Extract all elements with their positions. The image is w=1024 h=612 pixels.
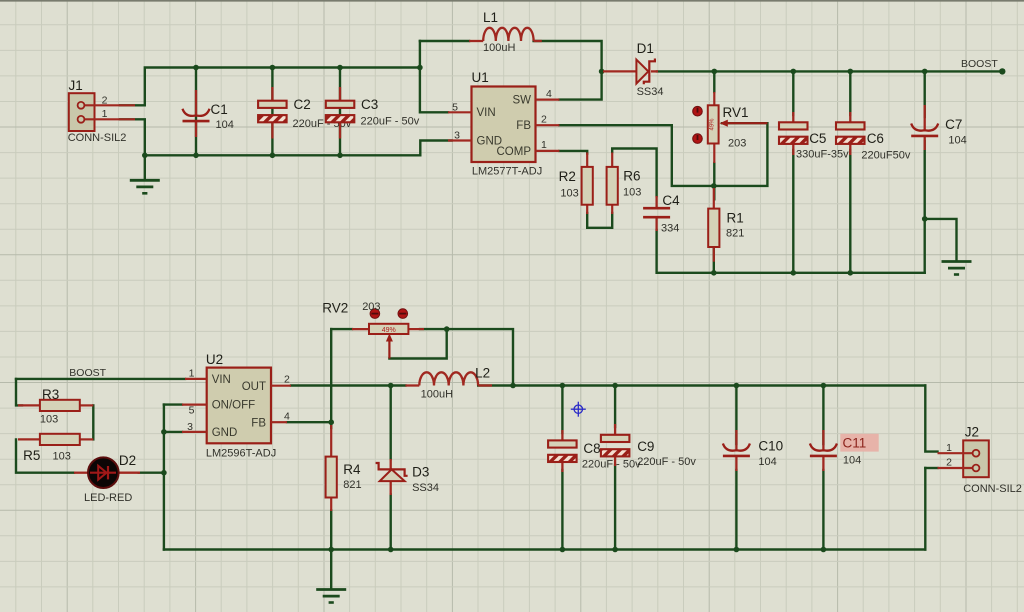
svg-text:LM2596T-ADJ: LM2596T-ADJ [206, 448, 276, 460]
wire R2-R6 link [587, 213, 612, 228]
connector J1 [69, 93, 135, 131]
wire C6 bottom lead [849, 150, 851, 273]
connector J2 [938, 440, 989, 477]
junction L1/D1/SW [599, 69, 605, 75]
svg-text:100uH: 100uH [483, 42, 515, 54]
junction C6 top [848, 69, 854, 75]
capacitor C1 leads [195, 90, 197, 137]
svg-text:334: 334 [661, 223, 679, 235]
capacitor C3 [326, 101, 355, 123]
svg-text:J1: J1 [69, 78, 83, 93]
wire GND pin jog [420, 141, 451, 156]
svg-text:103: 103 [53, 451, 71, 463]
wire C7 bottom lead [924, 141, 926, 273]
potentiometer RV2 [352, 324, 424, 359]
svg-text:C8: C8 [583, 441, 600, 456]
wire L1 left / VIN [420, 41, 448, 112]
capacitor C8 [548, 440, 577, 462]
junction RV2 right/output [510, 383, 516, 389]
svg-text:LED-RED: LED-RED [84, 492, 132, 504]
junction D2/vertical [161, 470, 167, 476]
svg-text:J2: J2 [965, 425, 979, 440]
svg-text:C11: C11 [843, 436, 867, 451]
junction C7 ground branch [922, 216, 928, 222]
svg-text:C10: C10 [758, 439, 783, 454]
svg-text:C7: C7 [945, 117, 962, 132]
capacitor C11 [810, 444, 837, 456]
junction C10 top [734, 383, 740, 389]
svg-text:R2: R2 [559, 169, 576, 184]
wire RV2 right to output [420, 329, 513, 385]
wire C9 top lead [614, 386, 616, 428]
wire to J2 pin1 [925, 386, 937, 452]
svg-text:R3: R3 [42, 387, 59, 402]
inductor L1 [469, 28, 542, 41]
wire J1 pin1 down [120, 119, 145, 155]
svg-text:220uF - 50v: 220uF - 50v [637, 456, 696, 468]
capacitor C7 [911, 124, 938, 136]
wire bottom rail right section [657, 230, 925, 273]
junction R1 bottom rail [711, 270, 717, 276]
junction FB/R4/RV2 [328, 419, 334, 425]
wire BOOST to U2 VIN [16, 378, 185, 380]
resistor R2 leads [586, 153, 588, 215]
wire R5 to D2 [16, 439, 74, 472]
wire to ground top-right [925, 219, 957, 261]
junction GND/vertical [161, 429, 167, 435]
svg-text:LM2577T-ADJ: LM2577T-ADJ [472, 166, 542, 178]
wire C1 riser [195, 68, 197, 156]
junction D3 bottom [388, 547, 394, 553]
junction C9 top [612, 383, 618, 389]
svg-text:203: 203 [362, 301, 380, 313]
wire COMP to R2 [559, 151, 587, 154]
marker RV2 pin dot left [370, 309, 380, 319]
inductor L2 [405, 372, 492, 385]
resistor R4 leads [330, 425, 332, 511]
capacitor C8 leads [561, 430, 563, 472]
svg-text:1: 1 [102, 108, 108, 120]
capacitor C11 leads [822, 430, 824, 471]
wire R1 bottom [713, 247, 715, 273]
svg-text:49%: 49% [710, 118, 716, 131]
svg-text:103: 103 [623, 187, 641, 199]
svg-text:D3: D3 [412, 465, 429, 480]
wire C5 bottom lead [792, 150, 794, 273]
wire J1 pin2 to top input bus [120, 68, 420, 106]
wire C10 top lead [735, 386, 737, 445]
svg-text:OUT: OUT [242, 381, 266, 393]
svg-text:R6: R6 [623, 169, 640, 184]
junction C8 top [560, 383, 566, 389]
resistor R3 leads [18, 404, 93, 406]
wire to R3 left [16, 379, 22, 406]
wire L1 right to SW [534, 41, 602, 100]
resistor R3 [40, 400, 80, 411]
svg-text:220uF - 50v: 220uF - 50v [361, 116, 420, 128]
svg-text:220uF50v: 220uF50v [861, 150, 910, 162]
svg-text:4: 4 [284, 411, 290, 423]
wire RV1 to R1 [713, 163, 715, 199]
wire C2 riser [271, 68, 273, 156]
svg-text:5: 5 [189, 405, 195, 417]
svg-text:3: 3 [187, 421, 193, 433]
svg-text:C4: C4 [662, 193, 680, 208]
wire D3 top [390, 386, 392, 460]
wire C8 bottom lead [561, 470, 563, 550]
junction C2 top [270, 65, 276, 71]
svg-text:SS34: SS34 [637, 86, 664, 98]
svg-text:R1: R1 [727, 211, 744, 226]
svg-text:2: 2 [102, 95, 108, 107]
wire left vertical bottom circuit [163, 405, 165, 550]
svg-text:GND: GND [212, 427, 238, 439]
junction input bus / L1 [417, 65, 423, 71]
wire ground stem bottom [330, 550, 332, 588]
svg-text:5: 5 [452, 102, 458, 114]
wire bottom ground bus [145, 154, 421, 156]
svg-text:BOOST: BOOST [69, 367, 106, 379]
junction J1 ground [142, 153, 148, 159]
wire RV2 left down [330, 329, 332, 422]
svg-text:49%: 49% [382, 327, 396, 334]
svg-text:VIN: VIN [477, 107, 496, 119]
svg-text:C9: C9 [637, 439, 654, 454]
svg-text:C6: C6 [867, 131, 884, 146]
wire to L1 [420, 40, 469, 42]
svg-text:FB: FB [251, 417, 266, 429]
svg-text:2: 2 [946, 457, 952, 469]
junction C2 bottom [270, 153, 276, 159]
svg-text:1: 1 [541, 139, 547, 151]
wire OUT to L2 [291, 384, 405, 386]
resistor R6 [607, 167, 618, 205]
capacitor C2 [258, 101, 287, 123]
wire to R4 top [330, 422, 332, 428]
junction C3 bottom [337, 153, 343, 159]
svg-text:104: 104 [758, 456, 776, 468]
capacitor C6 [836, 122, 865, 144]
marker RV1 pin dot top [693, 106, 703, 116]
junction C11 bottom [821, 547, 827, 553]
svg-text:330uF-35v: 330uF-35v [796, 149, 849, 161]
wire C9 bottom lead [614, 465, 616, 550]
marker RV2 pin dot right [398, 309, 408, 319]
diode D1 SS34 [603, 59, 658, 85]
op-amp U2 LM2596T-ADJ box [182, 368, 291, 444]
capacitor C9 [601, 435, 630, 457]
wire C5 top lead [792, 71, 794, 115]
wire RV1 top lead [713, 71, 715, 92]
wire C6 top lead [849, 71, 851, 115]
capacitor C10 leads [735, 430, 737, 471]
capacitor C10 [723, 444, 750, 456]
junction C9 bottom [612, 547, 618, 553]
wire FB loop [559, 123, 767, 186]
wire ON/OFF stub [164, 403, 182, 405]
svg-text:CONN-SIL2: CONN-SIL2 [963, 483, 1022, 495]
capacitor C7 leads [924, 105, 926, 150]
wire D3 bottom [390, 495, 392, 550]
svg-text:104: 104 [216, 119, 234, 131]
svg-text:D1: D1 [637, 41, 654, 56]
svg-text:203: 203 [728, 138, 746, 150]
svg-text:2: 2 [284, 374, 290, 386]
junction C5 bottom [791, 270, 797, 276]
capacitor C4 [643, 196, 670, 231]
junction C5 top [791, 69, 797, 75]
junction C8 bottom [560, 547, 566, 553]
wire D2 to vertical [139, 472, 164, 474]
resistor R1 [708, 209, 719, 247]
wire C11 bottom lead [822, 470, 824, 550]
svg-text:L2: L2 [475, 366, 490, 381]
capacitor C3 leads [339, 87, 341, 139]
svg-text:SS34: SS34 [412, 482, 439, 494]
svg-text:U2: U2 [206, 352, 223, 367]
svg-text:U1: U1 [472, 70, 489, 85]
capacitor C5 [779, 122, 808, 144]
svg-text:821: 821 [343, 479, 361, 491]
svg-text:VIN: VIN [212, 374, 231, 386]
junction C1 bottom [193, 153, 199, 159]
junction RV1 BOOST [712, 69, 718, 75]
svg-text:3: 3 [454, 129, 460, 141]
potentiometer RV1 [708, 92, 768, 163]
svg-text:D2: D2 [119, 453, 136, 468]
ground bottom [316, 590, 346, 603]
svg-text:CONN-SIL2: CONN-SIL2 [68, 132, 127, 144]
wire C7 top lead [924, 71, 926, 117]
wire C10 bottom lead [735, 470, 737, 550]
marker RV1 pin dot bottom [693, 134, 703, 144]
svg-text:103: 103 [560, 188, 578, 200]
svg-text:100uH: 100uH [421, 389, 453, 401]
wire RV2 left lead link [331, 328, 352, 330]
svg-text:821: 821 [726, 227, 744, 239]
svg-text:104: 104 [843, 455, 861, 467]
svg-text:2: 2 [541, 114, 547, 126]
capacitor C1 [183, 109, 210, 121]
capacitor C5 leads [792, 112, 794, 155]
svg-text:C2: C2 [294, 97, 311, 112]
wire C8 top lead [561, 386, 563, 434]
wire J2 pin2 stub link [925, 467, 937, 469]
svg-text:R5: R5 [23, 448, 40, 463]
svg-text:R4: R4 [343, 462, 361, 477]
resistor R5 [40, 434, 80, 445]
junction FB/RV1/R1 [711, 183, 717, 189]
junction C3 top [337, 65, 343, 71]
junction C11 top [821, 383, 827, 389]
resistor R6 leads [611, 153, 613, 215]
wire RV2 wiper loop [389, 329, 446, 358]
svg-text:220uF - 50v: 220uF - 50v [582, 459, 641, 471]
junction C6 bottom [848, 270, 854, 276]
capacitor C9 leads [614, 424, 616, 466]
capacitor C2 leads [271, 87, 273, 139]
wire R3-R5 right link [92, 405, 94, 439]
junction OUT/D3/L2 [388, 383, 394, 389]
resistor R1 leads [713, 188, 715, 262]
svg-text:104: 104 [948, 135, 966, 147]
wire FB to junction [287, 421, 331, 423]
svg-text:C1: C1 [211, 102, 228, 117]
LED D2 [74, 457, 140, 488]
wire J2 pin2 down [924, 468, 926, 550]
junction ground stem [328, 547, 334, 553]
svg-text:ON/OFF: ON/OFF [212, 400, 255, 412]
node BOOST terminal [999, 68, 1005, 74]
junction C1 top [193, 65, 199, 71]
ground top-right [942, 262, 972, 275]
svg-text:103: 103 [40, 414, 58, 426]
junction C7 top [922, 69, 928, 75]
wire ground stem J1 [144, 155, 146, 178]
wire D1 cathode to BOOST [657, 70, 1002, 72]
svg-text:1: 1 [946, 442, 952, 454]
resistor R4 [326, 457, 337, 498]
wire C11 top lead [822, 386, 824, 445]
capacitor C6 leads [849, 112, 851, 155]
marker origin crosshair [571, 402, 586, 417]
wire R4 bottom [330, 511, 332, 550]
highlight box C11 [840, 434, 878, 452]
resistor R2 [582, 167, 593, 205]
svg-text:L1: L1 [483, 10, 498, 25]
wire R6 top to C4 [612, 149, 656, 197]
svg-text:4: 4 [546, 88, 552, 100]
svg-text:SW: SW [512, 95, 531, 107]
svg-text:C3: C3 [361, 97, 378, 112]
svg-text:RV2: RV2 [322, 301, 348, 316]
wire C3 riser [339, 68, 341, 156]
ground J1 [130, 180, 160, 193]
wire output bus [478, 384, 925, 386]
resistor R5 leads [18, 438, 93, 440]
diode D3 SS34 [376, 459, 408, 495]
wire GND pin U2 [164, 431, 182, 433]
junction RV2 wiper/right lead [444, 326, 450, 332]
svg-text:C5: C5 [809, 131, 826, 146]
op-amp U1 LM2577T-ADJ box [448, 87, 559, 163]
wire bottom ground rail [164, 548, 925, 550]
svg-text:1: 1 [189, 368, 195, 380]
svg-text:BOOST: BOOST [961, 58, 998, 70]
svg-text:FB: FB [516, 120, 531, 132]
svg-text:RV1: RV1 [723, 105, 749, 120]
svg-text:COMP: COMP [497, 146, 532, 158]
junction C10 bottom [734, 547, 740, 553]
